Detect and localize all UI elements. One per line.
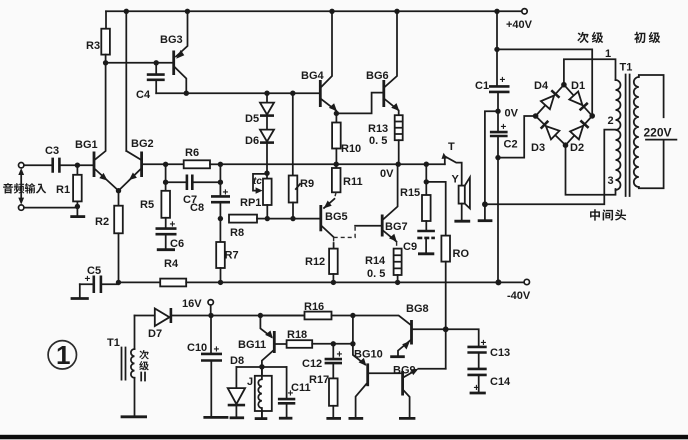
label 中间头 <box>590 209 600 220</box>
svg-text:C12: C12 <box>302 358 322 370</box>
svg-text:tc: tc <box>253 176 262 187</box>
wire BG9 to BG8 collector <box>445 329 447 368</box>
pointer R9 <box>296 184 300 189</box>
capacitor C8 <box>211 188 230 219</box>
transformer T1 secondary II winding <box>121 316 147 417</box>
resistor R3 <box>101 11 110 63</box>
capacitor C14 <box>467 369 486 394</box>
wire R3 bottom to BG3 base <box>106 62 173 64</box>
node R6 right / 0V line left <box>218 162 223 167</box>
arrow input span <box>18 168 24 205</box>
ground C5 <box>71 284 89 298</box>
svg-text:0V: 0V <box>380 168 394 180</box>
svg-text:D8: D8 <box>230 355 244 367</box>
svg-text:BG4: BG4 <box>301 70 325 82</box>
node R3 bottom <box>103 60 108 65</box>
svg-text:R15: R15 <box>400 187 420 199</box>
node top rail / BG3 emitter <box>185 9 190 14</box>
wire BG3 collector rail to BG4 base <box>156 92 319 94</box>
svg-text:1: 1 <box>605 48 611 60</box>
svg-text:R12: R12 <box>305 256 325 268</box>
resistor R11 <box>332 164 341 192</box>
relay J <box>255 367 272 419</box>
wire D8 J C11 node <box>236 366 286 368</box>
svg-text:RP1: RP1 <box>240 197 261 209</box>
wire 0V output line <box>220 163 444 165</box>
terminal input top <box>19 163 24 168</box>
transformer T1 secondary winding <box>616 80 621 190</box>
svg-text:C1: C1 <box>475 80 489 92</box>
transistor BG8 <box>353 316 446 357</box>
node C12 top <box>331 341 336 346</box>
wire C2 bottom to bridge left vertex <box>498 116 536 158</box>
wire BG2 collector riser <box>125 11 127 151</box>
capacitor C12 <box>325 344 343 379</box>
wire C2 to -40V rail <box>497 158 499 283</box>
wire 16V rail <box>211 315 305 317</box>
node BG3 collector <box>184 91 189 96</box>
resistor R5 <box>161 191 170 229</box>
bottom black bar <box>0 435 688 440</box>
wire 0V to ground rail <box>485 111 498 204</box>
diode D4 <box>541 90 560 109</box>
potentiometer RP1 <box>253 173 272 218</box>
node D6 cathode / RP1 top <box>264 171 269 176</box>
node R8 right / RP1 bottom <box>265 216 270 221</box>
transistor BG9 <box>399 369 446 419</box>
svg-text:C6: C6 <box>170 238 184 250</box>
node C7 left <box>163 180 168 185</box>
node R7 bottom rail <box>218 280 223 285</box>
capacitor C2 <box>490 111 508 157</box>
resistor R2 <box>114 191 123 283</box>
svg-text:0. 5: 0. 5 <box>369 135 387 147</box>
resistor R0 <box>441 236 450 330</box>
transistor BG2 <box>119 151 166 191</box>
node R2 bottom / C5 / R4 <box>116 280 121 285</box>
capacitor C7 <box>166 175 221 191</box>
svg-text:D6: D6 <box>245 135 259 147</box>
bridge edge top-right <box>564 85 592 116</box>
svg-text:C11: C11 <box>291 382 311 394</box>
wire BG1 base <box>77 164 92 166</box>
capacitor C11 <box>278 367 295 418</box>
svg-text:BG8: BG8 <box>406 303 429 315</box>
capacitor C10 <box>201 316 228 418</box>
wire bridge bottom to tap 3 <box>566 145 616 195</box>
bridge edge bottom-right <box>566 116 593 145</box>
node R15 R0 branch <box>424 179 429 184</box>
wire R5 branch <box>165 164 167 191</box>
diode D1 <box>569 92 588 111</box>
svg-text:-40V: -40V <box>507 290 531 302</box>
resistor R18 <box>287 340 334 348</box>
svg-text:R9: R9 <box>300 178 314 190</box>
svg-text:RO: RO <box>453 248 470 260</box>
bridge edge top-left <box>536 85 564 116</box>
node R16 right BG8 base <box>350 313 355 318</box>
wire BG4 emitter to BG6 base <box>336 93 382 114</box>
node BG11 collector <box>258 313 263 318</box>
svg-text:D4: D4 <box>534 80 549 92</box>
svg-text:BG10: BG10 <box>354 349 383 361</box>
svg-text:220V: 220V <box>644 126 672 140</box>
wire BG7 base <box>355 225 381 227</box>
svg-text:3: 3 <box>608 175 614 187</box>
node C2 bottom rail <box>495 279 501 285</box>
svg-text:Y: Y <box>452 174 460 186</box>
capacitor C5 <box>80 274 119 293</box>
wire dashed BG5 emitter to BG7 base <box>334 226 355 238</box>
node bridge plus takeoff <box>494 47 499 52</box>
svg-text:D3: D3 <box>531 142 545 154</box>
label 次级II vertical <box>139 350 149 359</box>
wire input bottom <box>24 207 78 208</box>
wire R15 branch <box>425 164 427 182</box>
transistor BG10 <box>349 344 402 419</box>
diode D2 <box>570 121 589 140</box>
svg-text:BG11: BG11 <box>238 339 266 351</box>
capacitor C4 <box>147 63 165 93</box>
svg-text:BG2: BG2 <box>131 138 154 150</box>
svg-text:C14: C14 <box>490 376 511 388</box>
wire bridge top to tap 1 <box>564 59 616 84</box>
node R1 bottom <box>75 204 80 209</box>
capacitor C3 <box>53 158 78 173</box>
resistor R15 <box>422 182 431 231</box>
node BG8 collector R0 <box>443 326 449 332</box>
speaker Y <box>454 177 470 221</box>
svg-text:C4: C4 <box>136 89 151 101</box>
svg-text:C10: C10 <box>187 342 207 354</box>
svg-text:R11: R11 <box>343 176 363 188</box>
transistor BG3 <box>172 11 187 93</box>
svg-text:0V: 0V <box>505 108 519 120</box>
node top rail / BG4 collector <box>329 9 334 14</box>
svg-text:1: 1 <box>56 340 70 370</box>
node BG10 top <box>350 341 355 346</box>
wire dashed R11 to BG5 <box>334 192 336 198</box>
transistor BG6 <box>382 11 399 115</box>
node C2 bottom branch <box>495 155 500 160</box>
wire to BG10 <box>333 343 353 345</box>
resistor R12 <box>329 237 338 282</box>
node R9 top <box>290 91 295 96</box>
resistor R4 <box>119 279 187 287</box>
label 次级 <box>577 32 588 43</box>
svg-text:R17: R17 <box>309 374 329 386</box>
svg-text:D7: D7 <box>148 328 162 340</box>
node bridge bottom vertex <box>563 142 569 148</box>
svg-text:R7: R7 <box>225 250 239 262</box>
bridge edge bottom-left <box>536 116 566 145</box>
node BG1 BG2 emitters <box>116 188 121 193</box>
wire to R0 <box>426 182 445 236</box>
transistor BG5 <box>319 199 334 237</box>
wire center tap line <box>485 130 616 205</box>
node R12 bottom rail <box>331 280 336 285</box>
svg-text:R1: R1 <box>56 184 70 196</box>
node top rail / BG6 collector <box>394 9 399 14</box>
svg-text:R10: R10 <box>341 143 361 155</box>
wire +40V top rail <box>106 10 522 12</box>
svg-text:T1: T1 <box>107 337 120 349</box>
svg-text:D2: D2 <box>570 142 584 154</box>
svg-text:+40V: +40V <box>506 19 533 31</box>
svg-text:BG7: BG7 <box>385 221 408 233</box>
svg-text:R2: R2 <box>95 216 109 228</box>
svg-text:J: J <box>247 376 253 388</box>
node top rail / BG2 collector <box>124 9 129 14</box>
transformer primary winding <box>634 77 639 187</box>
svg-text:R18: R18 <box>287 329 307 341</box>
wire C8 branch <box>219 164 221 196</box>
node bridge top vertex <box>561 82 567 88</box>
svg-text:C5: C5 <box>87 265 101 277</box>
wire to bridge right vertex <box>497 49 592 116</box>
svg-text:R4: R4 <box>164 258 179 270</box>
svg-text:C8: C8 <box>190 202 204 214</box>
svg-text:C2: C2 <box>504 139 518 151</box>
node output R13 BG7 collector <box>396 162 401 167</box>
transformer core <box>626 75 630 197</box>
svg-text:T: T <box>448 141 455 153</box>
svg-text:C13: C13 <box>490 347 510 359</box>
label circled 1 <box>48 340 76 370</box>
svg-text:D1: D1 <box>571 80 585 92</box>
svg-text:BG3: BG3 <box>160 34 183 46</box>
node R10 R11 on 0V line <box>334 162 339 167</box>
ground supply 0V <box>478 204 493 220</box>
svg-text:BG6: BG6 <box>366 70 389 82</box>
wire 16V tick <box>210 305 212 316</box>
svg-text:C9: C9 <box>403 241 417 253</box>
node T switch tap <box>424 162 429 167</box>
svg-text:2: 2 <box>608 115 614 127</box>
node C4 top <box>154 60 159 65</box>
resistor R9 <box>289 93 298 218</box>
svg-text:C3: C3 <box>45 145 59 157</box>
svg-text:R16: R16 <box>304 301 324 313</box>
node BG2 base / R6 left <box>163 162 168 167</box>
capacitor C6 <box>156 220 177 249</box>
node BG11 emitter <box>259 364 264 369</box>
capacitor C9 <box>417 231 435 254</box>
resistor R17 <box>326 378 341 418</box>
node C7 right <box>218 180 223 185</box>
node bridge right vertex <box>589 113 595 119</box>
node C3/R1/BG1 base <box>75 163 80 168</box>
node D5 anode <box>264 91 269 96</box>
resistor R8 <box>229 215 267 223</box>
ground C6 <box>157 248 175 251</box>
resistor R1 <box>73 165 82 206</box>
svg-text:BG5: BG5 <box>325 211 348 223</box>
terminal -40V <box>524 279 529 284</box>
resistor R6 <box>166 160 221 168</box>
wire to C13 <box>446 329 479 346</box>
switch T <box>442 153 462 186</box>
resistor R7 <box>216 219 225 283</box>
svg-text:R5: R5 <box>140 199 154 211</box>
wire input to C3 <box>24 164 53 166</box>
svg-text:R8: R8 <box>230 227 244 239</box>
resistor R14 fuse type <box>394 242 402 283</box>
resistor R16 <box>260 312 353 320</box>
svg-text:BG9: BG9 <box>393 365 416 377</box>
svg-text:R14: R14 <box>365 255 386 267</box>
node BG4 emitter <box>334 111 339 116</box>
wire RP1 to R9 bottom to BG5 base <box>267 218 319 220</box>
transistor BG4 <box>319 11 337 113</box>
wire C1 branch vertical <box>496 11 498 86</box>
transistor BG7 <box>381 164 398 242</box>
node R9 bottom <box>290 216 295 221</box>
node 0V midpoint <box>495 109 500 114</box>
resistor R10 <box>332 113 341 164</box>
wire primary loop <box>639 75 664 188</box>
svg-text:R13: R13 <box>368 123 388 135</box>
svg-text:+: + <box>500 75 506 86</box>
terminal 16V <box>208 300 213 305</box>
transistor BG1 <box>93 63 119 191</box>
svg-text:D5: D5 <box>245 113 259 125</box>
node C8 bottom / R8 left <box>218 216 223 221</box>
svg-text:0. 5: 0. 5 <box>367 268 385 280</box>
wire -40V rail <box>186 281 524 283</box>
wire R16 down to C12 node <box>352 316 354 344</box>
underline 220V <box>646 139 676 141</box>
capacitor C1 <box>489 75 510 111</box>
svg-text:R6: R6 <box>185 147 199 159</box>
diode D8 <box>228 367 245 418</box>
terminal +40V <box>522 9 527 14</box>
diode D5 <box>260 93 274 115</box>
diode D7 <box>135 308 212 326</box>
ground input <box>70 207 85 217</box>
node 16V rail C10 <box>208 313 213 318</box>
label 初级 <box>634 32 645 43</box>
label 音频输入 <box>3 183 13 193</box>
node bridge left vertex <box>533 113 539 119</box>
svg-text:R3: R3 <box>86 40 100 52</box>
resistor R13 fuse type <box>395 115 403 164</box>
svg-text:16V: 16V <box>182 298 202 310</box>
node top rail / C1 <box>494 9 499 14</box>
terminal input bottom <box>19 205 24 210</box>
diode D3 <box>541 121 560 140</box>
svg-text:T1: T1 <box>620 62 633 74</box>
diode D6 <box>260 116 274 174</box>
node ground rail junction <box>482 201 488 207</box>
transistor BG11 <box>260 316 286 367</box>
svg-text:BG1: BG1 <box>75 139 98 151</box>
node R14 bottom rail <box>395 280 400 285</box>
capacitor C13 <box>467 338 486 369</box>
